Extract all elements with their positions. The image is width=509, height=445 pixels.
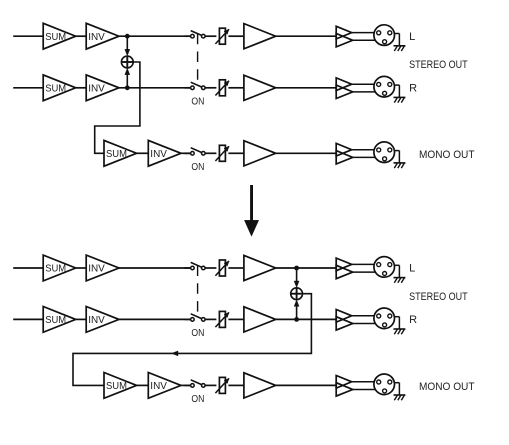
svg-text:SUM: SUM [45, 83, 66, 94]
svg-text:ON: ON [191, 328, 204, 339]
svg-text:R: R [409, 83, 417, 95]
svg-text:MONO OUT: MONO OUT [419, 381, 475, 393]
svg-text:STEREO OUT: STEREO OUT [409, 291, 468, 303]
svg-text:INV: INV [150, 149, 167, 160]
svg-text:L: L [409, 31, 415, 43]
svg-text:R: R [409, 314, 417, 326]
svg-text:INV: INV [150, 381, 167, 392]
svg-text:SUM: SUM [45, 32, 66, 43]
svg-text:SUM: SUM [106, 149, 127, 160]
svg-text:ON: ON [191, 162, 204, 173]
svg-text:STEREO OUT: STEREO OUT [409, 59, 468, 71]
svg-text:SUM: SUM [45, 315, 66, 326]
svg-text:SUM: SUM [106, 381, 127, 392]
svg-text:INV: INV [88, 32, 105, 43]
svg-text:ON: ON [191, 97, 204, 108]
svg-text:INV: INV [88, 264, 105, 275]
svg-text:L: L [409, 263, 415, 275]
svg-text:SUM: SUM [45, 264, 66, 275]
svg-text:MONO OUT: MONO OUT [419, 149, 475, 161]
svg-text:ON: ON [191, 394, 204, 405]
svg-text:INV: INV [88, 83, 105, 94]
svg-text:INV: INV [88, 315, 105, 326]
